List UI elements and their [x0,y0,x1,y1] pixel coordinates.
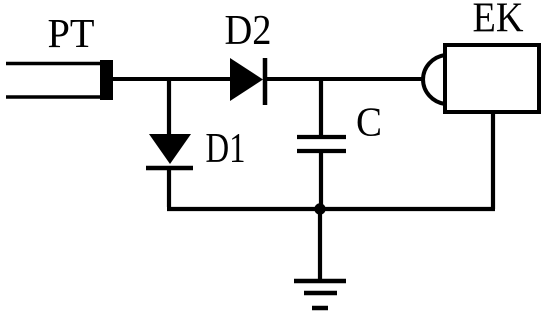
wire branch to D1 [167,77,171,136]
svg-text:D1: D1 [206,126,246,172]
junction node [314,203,325,214]
probe PT [6,60,113,100]
label D2 [225,8,272,54]
label C [356,99,382,145]
svg-text:C: C [356,99,382,145]
wire PT to D2 [112,77,232,81]
wire D2 to EK [265,77,424,81]
svg-text:PT: PT [48,10,95,56]
wire EK to bottom rail [491,112,495,209]
label PT [48,10,95,56]
diode D1 [146,134,193,168]
svg-text:EK: EK [473,0,524,42]
diode D2 [230,58,265,105]
capacitor C [297,137,346,151]
buzzer EK [423,45,539,112]
label D1 [206,126,246,172]
wire branch to capacitor [319,77,323,137]
wire capacitor to bottom rail [319,151,323,209]
ground [294,209,346,308]
label EK [473,0,524,42]
wire D1 to bottom rail [167,168,171,207]
svg-text:D2: D2 [225,8,272,54]
bottom rail wire [167,207,495,211]
